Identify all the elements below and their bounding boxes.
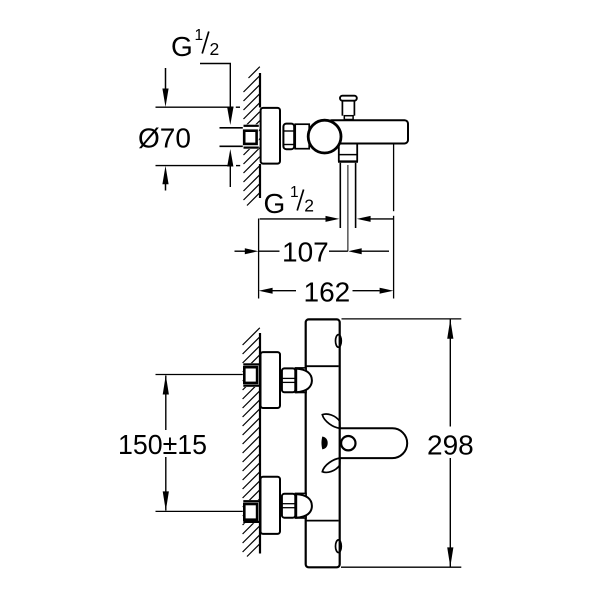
svg-text:107: 107 bbox=[282, 236, 329, 267]
O70 extent line (lower) bbox=[156, 165, 229, 167]
body seam at top connection bbox=[306, 365, 338, 367]
check-valve circle bbox=[308, 120, 341, 153]
spout leaf bottom bbox=[322, 458, 340, 472]
svg-text:G: G bbox=[171, 31, 193, 62]
wall hatching (bottom view) bbox=[243, 328, 260, 557]
diverter knob stem bbox=[341, 101, 343, 116]
298 dimension line and arrows bbox=[449, 319, 451, 426]
escutcheon flange bottom (bottom view) bbox=[261, 477, 281, 534]
extension line at x=393.6 bbox=[393, 144, 395, 211]
wall collar lines bottom (bottom view) bbox=[243, 500, 259, 502]
body seam at bottom connection bbox=[306, 520, 338, 522]
svg-text:162: 162 bbox=[304, 276, 351, 307]
dome bottom connection bbox=[296, 494, 312, 518]
svg-text:Ø70: Ø70 bbox=[138, 123, 191, 154]
107 dimension row bbox=[235, 250, 246, 252]
150+-15 dimension line and arrows bbox=[165, 376, 167, 431]
shower hose lines bbox=[339, 163, 341, 228]
wall face line (bottom view) bbox=[259, 333, 261, 554]
white mask behind fitting bbox=[243, 124, 259, 149]
svg-text:2: 2 bbox=[304, 196, 314, 216]
G 1/2 hose dimension row bbox=[260, 218, 326, 220]
faucet body (top view) bbox=[328, 120, 408, 143]
lever capsule bbox=[339, 428, 408, 458]
hex nut (top view) bbox=[283, 124, 294, 150]
hex nut bottom (bottom view) bbox=[282, 494, 295, 518]
hose centre line bbox=[347, 165, 349, 251]
diverter knob foot bbox=[344, 116, 353, 120]
svg-text:1: 1 bbox=[290, 184, 299, 201]
sleeve between nut and body bbox=[295, 124, 309, 149]
lever circle bbox=[341, 436, 355, 450]
wall collar lines top (bottom view) bbox=[243, 363, 259, 365]
O70 upper arrow bbox=[165, 68, 167, 91]
dome top connection bbox=[296, 369, 312, 393]
S-union square (top view) bbox=[244, 131, 256, 144]
S-union square bottom (bottom view) bbox=[244, 504, 257, 520]
spout leaf top bbox=[322, 414, 340, 428]
spout dark opening bbox=[321, 437, 327, 450]
white mask behind top fitting bbox=[243, 363, 260, 387]
O70 lower arrow bbox=[162, 166, 168, 185]
svg-text:298: 298 bbox=[427, 430, 474, 461]
162 dimension row bbox=[259, 288, 273, 294]
svg-text:2: 2 bbox=[210, 39, 220, 59]
outlet block below body bbox=[338, 144, 340, 161]
sleeve top connection bbox=[295, 368, 306, 393]
G 1/2 down arrow bbox=[227, 108, 233, 126]
298 extent lines bbox=[342, 318, 462, 320]
svg-text:G: G bbox=[264, 188, 286, 219]
S-union square top (bottom view) bbox=[244, 367, 257, 383]
G 1/2 leader line bbox=[200, 64, 230, 111]
sleeve bottom connection bbox=[295, 493, 306, 518]
escutcheon flange top (bottom view) bbox=[261, 352, 281, 408]
extension line at wall face bbox=[258, 219, 260, 299]
white mask behind bottom fitting bbox=[243, 500, 260, 523]
diverter knob cap bbox=[340, 96, 357, 101]
wall fitting collar lines (top view) bbox=[244, 125, 259, 127]
svg-text:150±15: 150±15 bbox=[118, 429, 207, 460]
screw lens bottom bbox=[336, 540, 342, 553]
G 1/2 up arrow bbox=[227, 149, 233, 167]
screw lens top bbox=[336, 335, 342, 348]
150+-15 extent lines bbox=[156, 374, 243, 376]
body (bottom view) bbox=[306, 319, 340, 567]
wall face line (top view) bbox=[259, 73, 261, 108]
supply pipe stub bbox=[220, 127, 245, 129]
wall hatching (top view) bbox=[244, 67, 260, 206]
hex nut top (bottom view) bbox=[282, 368, 295, 392]
O70 extent line (upper) bbox=[156, 106, 234, 108]
svg-text:1: 1 bbox=[195, 27, 204, 44]
escutcheon flange (top view) bbox=[261, 108, 280, 164]
